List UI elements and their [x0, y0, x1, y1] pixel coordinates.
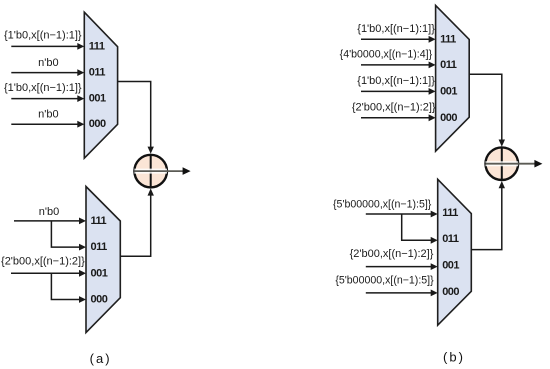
wire U4 output to X2 — [471, 181, 505, 250]
svg-text:{5'b00000,x[(n−1):5]}: {5'b00000,x[(n−1):5]} — [335, 275, 434, 287]
wire U1 output to X1 — [118, 82, 154, 154]
svg-text:{4'b0000,x[(n−1):4]}: {4'b0000,x[(n−1):4]} — [340, 49, 433, 61]
svg-text:{1'b0,x[(n−1):1]}: {1'b0,x[(n−1):1]} — [4, 82, 82, 94]
wire into U4 pin 001 — [366, 263, 438, 270]
mux U2 — [86, 187, 120, 333]
svg-text:000: 000 — [91, 294, 108, 306]
mux U1 — [84, 12, 117, 158]
svg-text:111: 111 — [440, 33, 456, 45]
wire into U1 pin 011 — [11, 69, 84, 76]
svg-text:011: 011 — [442, 233, 459, 245]
svg-text:000: 000 — [442, 286, 459, 298]
svg-text:001: 001 — [442, 260, 459, 272]
svg-text:(b): (b) — [443, 349, 465, 364]
wire into U3 pin 000 — [361, 114, 436, 121]
svg-text:111: 111 — [91, 215, 107, 227]
svg-text:n'b0: n'b0 — [39, 206, 59, 218]
wire into U2 pin 001 — [11, 270, 86, 277]
wire into U3 pin 011 — [361, 62, 436, 69]
wire into U3 pin 111 — [361, 36, 436, 43]
svg-text:{2'b00,x[(n−1):2]}: {2'b00,x[(n−1):2]} — [1, 255, 85, 267]
wire into U2 pin 111 — [14, 218, 86, 225]
output arrow of X2 — [518, 160, 542, 168]
branch wire U2 pin 001 to pin 000 — [51, 273, 86, 303]
wire into U1 pin 001 — [11, 95, 84, 102]
svg-text:{2'b00,x[(n−1):2]}: {2'b00,x[(n−1):2]} — [350, 248, 434, 260]
wire into U4 pin 000 — [366, 290, 438, 297]
wire into U4 pin 111 — [366, 211, 438, 218]
svg-text:{1'b0,x[(n−1):1]}: {1'b0,x[(n−1):1]} — [357, 23, 435, 35]
xor gate X1 — [134, 155, 167, 188]
svg-text:011: 011 — [440, 59, 457, 71]
wire U2 output to X1 — [120, 188, 154, 256]
wire into U1 pin 000 — [11, 121, 84, 128]
svg-text:111: 111 — [442, 207, 458, 219]
svg-text:n'b0: n'b0 — [38, 57, 58, 69]
svg-text:n'b0: n'b0 — [38, 108, 58, 120]
svg-text:(a): (a) — [90, 351, 112, 366]
svg-text:000: 000 — [440, 112, 457, 124]
svg-text:001: 001 — [440, 85, 457, 97]
svg-text:000: 000 — [89, 118, 106, 130]
wire into U3 pin 001 — [361, 88, 436, 95]
branch wire U2 pin 111 to pin 011 — [51, 221, 86, 251]
svg-text:001: 001 — [91, 267, 108, 279]
output arrow of X1 — [167, 167, 191, 175]
svg-text:011: 011 — [89, 67, 106, 79]
svg-text:001: 001 — [89, 93, 106, 105]
svg-text:{5'b00000,x[(n−1):5]}: {5'b00000,x[(n−1):5]} — [333, 198, 432, 210]
svg-text:011: 011 — [91, 241, 108, 253]
svg-text:{1'b0,x[(n−1):1]}: {1'b0,x[(n−1):1]} — [357, 75, 435, 87]
branch wire U4 pin 111 to pin 011 — [402, 214, 438, 244]
mux U4 — [438, 179, 472, 325]
svg-text:{1'b0,x[(n−1):1]}: {1'b0,x[(n−1):1]} — [4, 29, 82, 41]
svg-text:{2'b00,x[(n−1):2]}: {2'b00,x[(n−1):2]} — [352, 102, 436, 114]
svg-text:111: 111 — [89, 40, 105, 52]
wire U3 output to X2 — [469, 74, 505, 146]
wire into U1 pin 111 — [11, 43, 84, 50]
mux U3 — [436, 5, 470, 151]
xor gate X2 — [486, 147, 519, 180]
